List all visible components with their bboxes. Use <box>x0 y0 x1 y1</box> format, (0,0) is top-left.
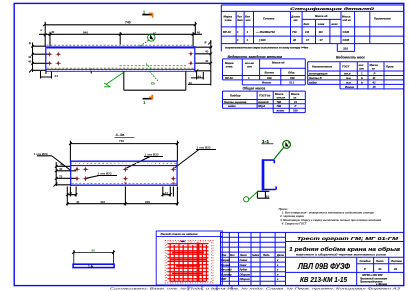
overall dimension line top <box>44 22 195 47</box>
svg-text:Прим.: Прим. <box>386 65 394 69</box>
svg-text:40: 40 <box>59 167 63 171</box>
svg-text:т.в: т.в <box>346 77 351 80</box>
leader callouts <box>127 157 164 169</box>
red markers elevation <box>74 167 176 185</box>
svg-text:4. Сварка по ГОСТ: 4. Сварка по ГОСТ <box>281 222 307 226</box>
elev left chain <box>56 162 76 186</box>
bottom strip below frame <box>110 287 401 291</box>
svg-text:Масса: Масса <box>370 63 379 67</box>
svg-text:44: 44 <box>198 75 202 79</box>
svg-text:700: 700 <box>277 100 282 104</box>
svg-text:ГИП: ГИП <box>221 278 226 281</box>
svg-text:ЛВЛ 09В ФУЗФ: ЛВЛ 09В ФУЗФ <box>297 262 350 271</box>
svg-text:Прим.:: Прим.: <box>279 207 289 211</box>
svg-text:1 отв Ø23: 1 отв Ø23 <box>98 172 112 176</box>
green flag weld symbol left <box>104 73 124 87</box>
svg-text:Оборот: Оборот <box>240 273 251 276</box>
svg-text:Р: Р <box>364 267 366 271</box>
weld circle callout top view <box>139 34 155 47</box>
channel profile <box>262 159 276 190</box>
svg-text:г. Москва: г. Москва <box>376 284 388 286</box>
svg-text:шт: шт <box>359 68 364 71</box>
left dim chain <box>33 43 51 73</box>
svg-text:дет: дет <box>237 18 243 22</box>
svg-text:Кол: Кол <box>245 15 250 19</box>
red hole markers plan <box>47 51 194 65</box>
svg-text:Дата: Дата <box>276 254 284 257</box>
svg-text:всего: всего <box>277 110 285 113</box>
svg-text:1 отв Ø23: 1 отв Ø23 <box>145 153 159 157</box>
svg-text:ГОСТ: ГОСТ <box>342 65 350 69</box>
svg-text:16: 16 <box>266 194 270 198</box>
svg-text:1 редняя обойма крана на обрыв: 1 редняя обойма крана на обрыв <box>289 246 401 253</box>
svg-text:Итого: Итого <box>262 81 271 85</box>
svg-text:С245: С245 <box>343 30 350 34</box>
svg-text:а: а <box>40 28 42 32</box>
tick slashes row2 <box>43 23 197 36</box>
svg-text:310: 310 <box>293 109 298 113</box>
svg-text:Общая масса: Общая масса <box>243 87 266 91</box>
svg-text:111: 111 <box>319 30 324 34</box>
svg-text:элем.: элем. <box>226 66 234 69</box>
svg-text:01: 01 <box>379 267 383 271</box>
section mark 1 bottom <box>143 95 153 105</box>
svg-text:01: 01 <box>394 267 398 271</box>
white dash in bottom edge <box>47 69 194 71</box>
svg-text:Нач.отд: Нач.отд <box>221 269 232 272</box>
svg-text:БР-1С: БР-1С <box>225 76 234 80</box>
svg-text:44: 44 <box>165 191 169 195</box>
left below bracket <box>41 70 52 78</box>
svg-text:Болта: Болта <box>265 71 275 75</box>
svg-text:740: 740 <box>119 139 124 143</box>
svg-text:болты оцинков.: болты оцинков. <box>224 100 247 104</box>
svg-text:17: 17 <box>306 38 310 42</box>
svg-text:всех: всех <box>332 23 339 26</box>
svg-text:Примечание: Примечание <box>374 17 391 21</box>
svg-text:1-Б: 1-Б <box>88 264 94 268</box>
svg-text:ОРГКБ и ОКС КБР: ОРГКБ и ОКС КБР <box>362 275 383 277</box>
svg-text:4-4а: 4-4а <box>116 132 126 137</box>
svg-text:дет: дет <box>304 22 310 26</box>
svg-text:700: 700 <box>277 104 282 108</box>
svg-text:Рубин: Рубин <box>240 269 248 272</box>
svg-text:38||-0: 38||-0 <box>258 104 266 108</box>
svg-text:44: 44 <box>55 74 59 78</box>
svg-text:г: г <box>277 278 279 281</box>
svg-text:С245: С245 <box>343 38 350 42</box>
svg-text:Наименование: Наименование <box>312 65 333 69</box>
svg-text:Промстройпроект: Промстройпроект <box>360 281 382 284</box>
svg-text:Листов: Листов <box>390 259 402 263</box>
svg-text:31.1: 31.1 <box>289 81 295 85</box>
dim line row2 <box>39 32 202 47</box>
svg-text:Кол: Кол <box>230 254 235 257</box>
svg-text:Сечение: Сечение <box>263 17 275 21</box>
left columns <box>229 232 285 285</box>
svg-text:1: 1 <box>237 38 239 42</box>
svg-text:40: 40 <box>60 163 64 167</box>
svg-text:Масса: Масса <box>291 92 300 96</box>
svg-text:1-1: 1-1 <box>262 139 270 144</box>
svg-text:1: 1 <box>248 76 250 80</box>
svg-text:Оборот: Оборот <box>240 278 251 281</box>
right dim chain <box>195 40 212 72</box>
svg-text:шт: шт <box>247 66 252 69</box>
svg-text:11: 11 <box>373 76 376 80</box>
svg-text:Спецификация деталей: Спецификация деталей <box>290 7 376 11</box>
svg-text:1: 1 <box>247 38 249 42</box>
svg-text:гайки: гайки <box>228 104 236 108</box>
svg-text:— 25х360х710: — 25х360х710 <box>255 30 275 34</box>
svg-text:446: 446 <box>100 200 105 204</box>
red hatch grid <box>165 240 213 282</box>
svg-text:Марка: Марка <box>225 61 234 65</box>
svg-text:Р: Р <box>295 104 297 108</box>
svg-text:226: 226 <box>145 200 150 204</box>
svg-text:Изм: Изм <box>222 254 227 257</box>
svg-text:Итого: Итого <box>345 85 354 89</box>
svg-text:Ск: Ск <box>151 82 155 86</box>
svg-text:1 отв Ø23: 1 отв Ø23 <box>197 146 211 150</box>
svg-text:310: 310 <box>267 76 272 80</box>
svg-text:№док: №док <box>252 254 260 257</box>
svg-text:конструкция: конструкция <box>309 73 328 76</box>
svg-text:шт: шт <box>246 19 251 22</box>
svg-text:Согласовано: Взам. инв. № По: Согласовано: Взам. инв. № Подп. и дата И… <box>110 287 401 291</box>
svg-text:1: 1 <box>143 10 146 15</box>
elev overall dim <box>70 141 177 163</box>
elev below dims <box>67 187 177 206</box>
svg-text:Масса ед: Масса ед <box>315 14 328 18</box>
svg-text:41: 41 <box>372 80 377 84</box>
svg-text:4Г: 4Г <box>153 31 157 35</box>
svg-text:75: 75 <box>59 175 63 179</box>
beam plan outline <box>46 46 195 72</box>
extension at x91 <box>90 69 92 74</box>
svg-text:Масса ед: Масса ед <box>272 61 285 65</box>
blue mark on hatch <box>181 240 185 242</box>
svg-text:40: 40 <box>28 55 32 59</box>
svg-text:11: 11 <box>294 100 297 104</box>
svg-text:Н.контр: Н.контр <box>221 273 232 276</box>
weld circle callout section <box>274 141 291 160</box>
svg-text:310: 310 <box>343 47 348 51</box>
svg-text:Разраб: Разраб <box>221 259 230 262</box>
svg-text:болты В: болты В <box>309 76 322 80</box>
svg-text:элем: элем <box>318 23 325 26</box>
plate under channel <box>257 191 269 198</box>
svg-text:111: 111 <box>305 30 310 34</box>
svg-text:Поз: Поз <box>237 15 243 19</box>
svg-text:2. чертежи марки: 2. чертежи марки <box>279 214 304 218</box>
svg-text:Стадия: Стадия <box>360 259 371 263</box>
svg-text:1: 1 <box>237 30 239 34</box>
svg-text:17: 17 <box>320 38 324 42</box>
section mark 1 top <box>142 10 152 18</box>
svg-text:Лист: Лист <box>375 259 384 263</box>
green flag weld symbol section <box>244 191 259 202</box>
right below brackets <box>188 71 211 86</box>
svg-text:20: 20 <box>292 38 297 42</box>
svg-text:40: 40 <box>28 60 32 64</box>
svg-text:40: 40 <box>76 200 80 204</box>
svg-text:Ведомость заводских метизов: Ведомость заводских метизов <box>228 55 283 59</box>
svg-text:изд кг: изд кг <box>343 18 352 22</box>
svg-text:тн.в: тн.в <box>344 73 351 76</box>
svg-text:КВ 213-КМ 1-15: КВ 213-КМ 1-15 <box>300 277 347 284</box>
svg-text:1 отв Ø23: 1 отв Ø23 <box>34 152 48 156</box>
svg-text:Масса: Масса <box>275 92 284 96</box>
svg-text:740: 740 <box>125 21 131 25</box>
beam plan: olive hidden dashes above bottom edge <box>120 65 187 67</box>
svg-text:40: 40 <box>205 50 209 54</box>
elev beam <box>72 162 177 164</box>
svg-text:Общ: Общ <box>288 71 295 75</box>
svg-text:полуавтоматическая сварка выпо: полуавтоматическая сварка выполняется по… <box>225 47 308 50</box>
svg-text:Подбор: Подбор <box>230 94 241 98</box>
svg-text:Марка: Марка <box>224 15 233 19</box>
svg-text:310: 310 <box>290 76 295 80</box>
svg-text:1: 1 <box>247 30 249 34</box>
svg-text:г: г <box>277 259 279 262</box>
svg-text:элем.: элем. <box>225 19 233 22</box>
svg-text:комплект и сборочный чертеж мо: комплект и сборочный чертеж монтажных уз… <box>296 253 387 256</box>
svg-text:Масса: Масса <box>342 15 351 19</box>
svg-text:Проектный институт: Проектный институт <box>360 277 387 280</box>
svg-text:40: 40 <box>51 30 55 34</box>
svg-text:Ь: Ь <box>361 76 363 80</box>
svg-text:Сквor: Сквor <box>240 264 248 267</box>
svg-text:б: б <box>288 141 290 145</box>
svg-text:Расход стали на изделие: Расход стали на изделие <box>161 232 199 236</box>
svg-text:гайки: гайки <box>309 80 317 84</box>
svg-text:тнвкпд: тнвкпд <box>258 100 269 104</box>
svg-text:Подп: Подп <box>263 254 270 257</box>
svg-text:ГОСТ-№: ГОСТ-№ <box>259 94 271 98</box>
svg-text:Савин: Савин <box>240 259 248 262</box>
svg-text:F: F <box>205 41 208 45</box>
svg-text:т.в: т.в <box>346 81 351 84</box>
svg-text:Р: Р <box>374 72 376 76</box>
svg-text:44: 44 <box>69 191 73 195</box>
beam plan: olive hidden dashes top <box>47 44 195 46</box>
under-beam rectangle <box>124 72 186 91</box>
svg-text:1: 1 <box>143 100 146 105</box>
svg-text:г: г <box>277 269 279 272</box>
svg-text:15: 15 <box>373 85 377 89</box>
svg-text:3. Монтажную сборку и сварку в: 3. Монтажную сборку и сварку выполнять т… <box>280 218 381 222</box>
svg-text:40: 40 <box>197 31 201 35</box>
svg-text:БР-1С: БР-1С <box>223 30 232 34</box>
svg-text:40: 40 <box>189 81 193 85</box>
svg-text:640: 640 <box>83 30 88 34</box>
svg-text:Трест орграт ГМ; МГ 01-ГМ: Трест орграт ГМ; МГ 01-ГМ <box>297 236 399 241</box>
svg-text:1. Все отверстия - отверстия в: 1. Все отверстия - отверстия в монтажных… <box>282 211 374 215</box>
svg-text:Провер: Провер <box>221 264 231 267</box>
green dashed leader in plan <box>150 71 159 81</box>
svg-text:кг: кг <box>372 68 375 71</box>
svg-text:кг: кг <box>294 96 297 99</box>
svg-text:Лист: Лист <box>239 254 248 257</box>
right part <box>286 242 405 286</box>
svg-text:60: 60 <box>92 249 96 253</box>
svg-text:F: F <box>29 42 32 46</box>
svg-text:710: 710 <box>292 30 297 34</box>
svg-text:г: г <box>277 264 279 267</box>
svg-text:мм: мм <box>294 19 298 22</box>
svg-text:Ведомость масс: Ведомость масс <box>336 55 365 59</box>
svg-text:Ь: Ь <box>361 80 363 84</box>
svg-text:[ 40С: [ 40С <box>258 38 267 42</box>
svg-text:40: 40 <box>205 59 209 63</box>
svg-text:Длина: Длина <box>290 15 300 19</box>
svg-text:шт.кг: шт.кг <box>277 96 286 99</box>
